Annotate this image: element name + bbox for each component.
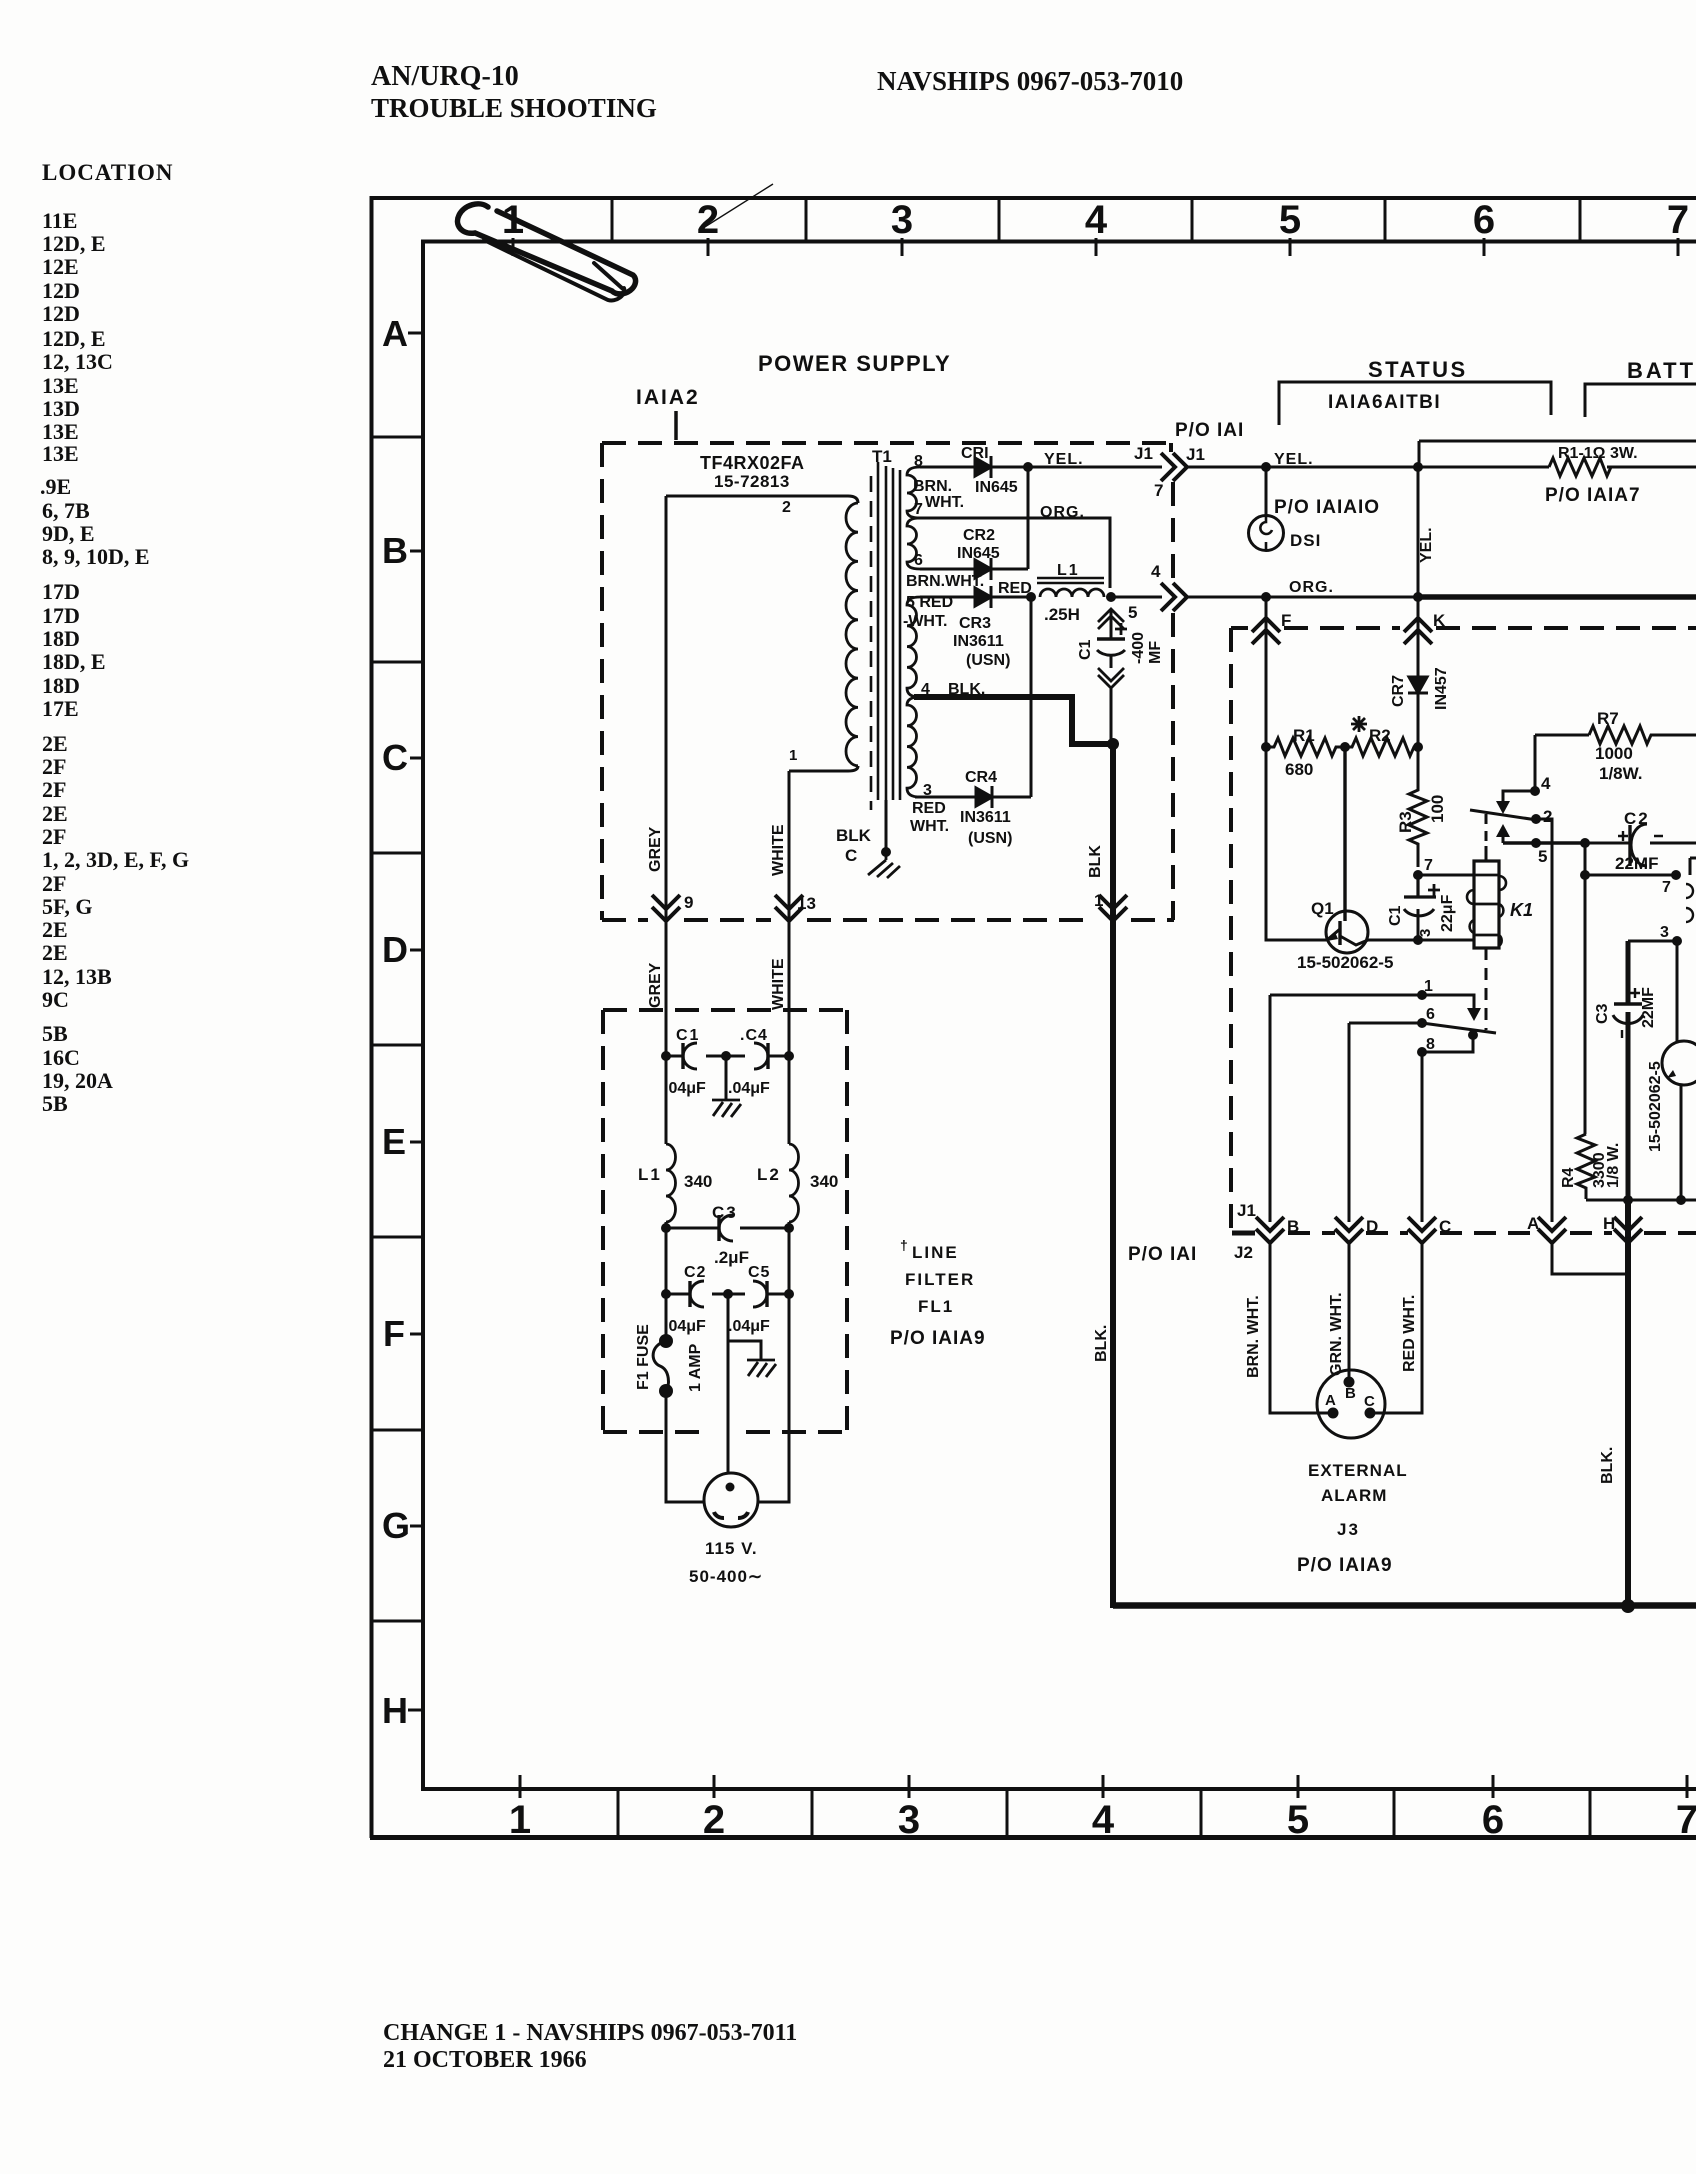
svg-text:FILTER: FILTER [905,1270,975,1289]
svg-text:C2: C2 [684,1264,706,1281]
svg-text:7: 7 [1667,198,1689,242]
J1/J2 row dashed [1232,1231,1255,1236]
svg-text:1: 1 [1424,978,1433,995]
svg-text:9C: 9C [42,987,69,1012]
wire 3 row (right) [1628,940,1677,943]
connector D arrow (down) [1335,1217,1363,1243]
svg-text:FL1: FL1 [918,1297,954,1316]
transformer T1 secondary winding 5-4 [907,597,920,697]
border inner frame [421,241,425,1789]
wire F drop [1265,597,1268,747]
node C1/C4 center [721,1051,731,1061]
svg-text:1 AMP: 1 AMP [687,1343,704,1392]
connector A arrow (down) [1538,1217,1566,1243]
capacitor C2 .04uF plates [688,1281,691,1307]
node YEL/R1-1 [1413,462,1423,472]
connector pin 1 arrow (BLK) [1099,895,1127,921]
svg-text:R4: R4 [1560,1167,1577,1188]
svg-text:5: 5 [1128,603,1137,622]
svg-text:12E: 12E [42,254,79,279]
wire bottom tie row [1586,1199,1696,1202]
svg-text:13D: 13D [42,396,80,421]
svg-text:2E: 2E [42,731,68,756]
svg-text:BLK.: BLK. [1599,1447,1616,1484]
svg-text:C1: C1 [1077,639,1094,660]
svg-text:CRI: CRI [961,445,989,462]
svg-text:12, 13B: 12, 13B [42,964,112,989]
capacitor C1 plus sign [1115,623,1127,635]
svg-text:WHT.: WHT. [925,494,964,511]
svg-text:B: B [382,530,408,571]
svg-text:5: 5 [1538,847,1547,866]
capacitor C2 22MF [1628,825,1631,866]
svg-text:P/O IAIAIO: P/O IAIAIO [1274,497,1380,518]
svg-text:ORG.: ORG. [1289,579,1334,596]
node ORG/DS1 [1261,592,1271,602]
svg-text:18D, E: 18D, E [42,649,106,674]
svg-text:(USN): (USN) [968,830,1012,847]
transformer core laminations [878,462,900,800]
svg-text:1000: 1000 [1595,744,1633,763]
node c3 right [784,1223,794,1233]
svg-text:7: 7 [1676,1798,1696,1842]
wire battery top line [1419,440,1696,443]
connector J1 pin 4 arrow [1161,583,1187,611]
svg-text:19, 20A: 19, 20A [42,1068,113,1093]
ground symbol (C2/C5) [747,1360,776,1377]
svg-text:P/O IAIA9: P/O IAIA9 [890,1328,986,1349]
capacitor C1 22uF plates [1404,875,1436,897]
svg-text:12D: 12D [42,301,80,326]
svg-text:D: D [382,929,408,970]
svg-text:-400: -400 [1130,632,1147,664]
svg-text:50-400∼: 50-400∼ [689,1567,763,1586]
svg-text:12, 13C: 12, 13C [42,349,113,374]
wire 6 row [1349,1022,1422,1025]
resistor R3 100 (vertical) [1409,747,1427,867]
svg-text:3: 3 [898,1798,920,1842]
node L1 output junction [1106,592,1116,602]
svg-text:5: 5 [1287,1798,1309,1842]
svg-text:IN457: IN457 [1433,667,1450,710]
footer change note [383,2020,797,2073]
svg-text:13: 13 [797,894,816,913]
svg-text:(USN): (USN) [966,652,1010,669]
node RED junction [1026,592,1036,602]
svg-text:IN645: IN645 [975,479,1018,496]
svg-text:4: 4 [1092,1798,1115,1842]
paperclip scan artifact [458,204,636,301]
svg-text:7: 7 [1424,857,1433,874]
wire contact 4 drop [1534,735,1537,791]
connector H arrow (down) [1614,1217,1642,1243]
node bus junction [1621,1599,1635,1613]
bottom band number ticks [520,1775,1687,1798]
svg-text:BATTE: BATTE [1627,358,1696,383]
svg-text:BLK: BLK [836,826,872,845]
node R3 bottom / pin 7 [1413,870,1423,880]
node R2/CR7 junction [1413,742,1423,752]
svg-text:CR4: CR4 [965,769,997,786]
wire ORG row [1186,596,1418,599]
transformer T1 secondary winding 8-7 [907,467,920,518]
wire YEL vertical drop [1417,467,1420,597]
wire D drop [1348,1023,1351,1222]
connector C arrow (down) [1408,1217,1436,1243]
wire RED junction down to CR4 [1030,597,1033,797]
wire B drop [1269,995,1272,1222]
header title [371,61,1183,123]
svg-text:8, 9, 10D, E: 8, 9, 10D, E [42,544,150,569]
ground symbol (C1/C4) [712,1100,741,1117]
node c2 left [661,1289,671,1299]
svg-text:K1: K1 [1510,900,1533,920]
svg-text:TF4RX02FA: TF4RX02FA [700,453,805,473]
transformer shield dashed line [870,476,873,810]
wire BLK thick from terminal 4 [914,697,1113,744]
svg-text:C: C [845,846,857,865]
resistor R1-1ohm zigzag [1549,458,1611,476]
wire terminal 7 ORG feed [911,518,1110,588]
wire GREY rail [665,496,668,1056]
svg-text:5F, G: 5F, G [42,894,93,919]
node R1/R2 junction [1340,742,1350,752]
svg-text:WHITE: WHITE [770,824,787,876]
svg-text:J1: J1 [1186,445,1205,464]
wire Q1 emitter rail [1266,747,1327,940]
svg-text:BLK.: BLK. [1093,1325,1110,1362]
wire H drop thick [1625,1200,1631,1605]
capacitor C2/C5 row wire [666,1293,789,1296]
wire Q2 vertical [1677,941,1681,1200]
node white/C4 [784,1051,794,1061]
power plug 115V [704,1473,758,1527]
diode CR1 IN645 [975,458,991,476]
svg-text:L1: L1 [1057,562,1080,579]
relay linkage dashed lower [1485,948,1488,1030]
svg-text:17D: 17D [42,603,80,628]
top band column numbers [502,198,1689,242]
wire C to alarm [1370,1243,1422,1413]
svg-text:11E: 11E [42,208,77,233]
wire C3 thick vertical [1626,941,1631,1201]
wire WHITE rail [788,771,791,1056]
svg-text:K: K [1433,611,1446,630]
external alarm connector J3 [1317,1370,1385,1438]
svg-text:BRN. WHT.: BRN. WHT. [1245,1295,1262,1378]
svg-text:1/8 W.: 1/8 W. [1605,1143,1622,1188]
svg-text:16C: 16C [42,1045,80,1070]
svg-text:WHITE: WHITE [770,958,787,1010]
svg-text:RED: RED [912,800,946,817]
svg-text:1: 1 [789,747,797,764]
svg-text:6: 6 [914,552,923,569]
svg-text:2: 2 [782,499,791,516]
svg-text:C: C [1364,1393,1375,1410]
wire pin3 row [1418,939,1474,942]
svg-text:IAIA2: IAIA2 [636,386,700,409]
fuse F1 1 AMP [659,1334,673,1348]
main ground bus (thick) [1113,1602,1696,1609]
border outer frame [370,196,374,1838]
svg-text:13E: 13E [42,373,79,398]
wire grey rail lower [666,1228,705,1502]
svg-text:WHT.: WHT. [910,818,949,835]
bottom band dividers [618,1789,1590,1838]
left band letter ticks [408,333,425,1710]
svg-text:Q1: Q1 [1311,899,1334,918]
capacitor C4 .04uF plates [766,1043,769,1069]
svg-text:J1: J1 [1134,444,1153,463]
wire BLK down through box [1110,744,1116,1608]
capacitor C3 plates [717,1215,720,1241]
capacitor C1 plates [1097,637,1125,640]
svg-text:MF: MF [1147,641,1164,664]
resistor R1 680 [1266,738,1342,756]
svg-text:R1: R1 [1293,726,1315,745]
svg-text:ORG.: ORG. [1040,504,1085,521]
node BLK junction [1107,738,1119,750]
svg-text:RED WHT.: RED WHT. [1401,1295,1418,1372]
svg-text:21 OCTOBER 1966: 21 OCTOBER 1966 [383,2047,587,2073]
lamp DS1 wire top [1265,467,1268,516]
wire B to alarm [1270,1243,1333,1413]
wire common 5 row [1503,841,1585,845]
node R1 left [1261,742,1271,752]
svg-text:P/O IAIA9: P/O IAIA9 [1297,1555,1393,1576]
svg-text:100: 100 [1428,795,1447,823]
relay K1 coil box [1474,861,1499,948]
svg-text:17D: 17D [42,579,80,604]
shield lead to ground [885,800,888,852]
node pin 3 [1413,935,1423,945]
label C3 plus [1622,988,1640,1038]
connector pin 9 arrow [652,895,680,921]
svg-text:C5: C5 [748,1264,770,1281]
svg-text:1: 1 [509,1798,531,1842]
capacitor C1 .04uF plates [681,1043,684,1069]
STATUS bracket [1279,382,1551,425]
line filter FL1 dashed box [603,1010,847,1432]
svg-text:7: 7 [1154,481,1163,500]
wire A jog to H [1552,1243,1628,1274]
svg-text:B: B [1345,1385,1356,1402]
label C2 plus/minus [1618,831,1663,841]
wire white rail mid [788,1056,791,1228]
svg-text:R3: R3 [1396,811,1415,833]
wire C2 row [1585,842,1696,845]
node ORG/YEL drop [1413,592,1423,602]
svg-text:.04μF: .04μF [728,1318,770,1335]
svg-text:12D: 12D [42,278,80,303]
svg-text:EXTERNAL: EXTERNAL [1308,1461,1408,1480]
left band row letters [382,313,410,1731]
svg-text:.9E: .9E [40,474,71,499]
svg-text:POWER SUPPLY: POWER SUPPLY [758,351,951,376]
svg-text:R2: R2 [1369,726,1391,745]
node contact 4 [1530,786,1540,796]
diode CR7 IN457 [1409,677,1427,693]
wire YEL from J1 to right [1186,466,1696,469]
connector K arrow (up) [1404,618,1432,644]
svg-text:6, 7B: 6, 7B [42,498,90,523]
svg-text:F: F [1281,611,1291,630]
top band dividers [612,198,1580,241]
node c2/c5 center [723,1289,733,1299]
svg-text:CHANGE 1 - NAVSHIPS 0967-053-7: CHANGE 1 - NAVSHIPS 0967-053-7011 [383,2020,797,2046]
svg-text:YEL.: YEL. [1274,451,1314,468]
capacitor C3 row wire [666,1227,789,1230]
svg-text:R7: R7 [1597,709,1619,728]
svg-text:J3: J3 [1337,1520,1360,1539]
svg-text:IN3611: IN3611 [960,809,1011,826]
BATTERY bracket [1585,384,1696,417]
node c3 left [661,1223,671,1233]
wire center to ground [725,1056,728,1100]
svg-text:340: 340 [810,1172,838,1191]
resistor R4 3300 1/8W (vertical) [1577,1134,1595,1199]
transformer T1 secondary winding 7-6 [907,518,920,569]
svg-text:DSI: DSI [1290,531,1321,550]
svg-text:D: D [1366,1217,1378,1236]
connector F arrow (up) [1252,618,1280,644]
tick from 1A1A2 to box [674,411,678,440]
svg-text:J1: J1 [1237,1201,1256,1220]
diode CR4 IN3611 [976,788,992,806]
svg-text:L1: L1 [638,1165,662,1184]
svg-text:†: † [900,1237,908,1253]
svg-text:BLK: BLK [1087,845,1104,878]
svg-text:C1: C1 [1387,905,1404,926]
top band number ticks [513,238,1678,256]
wire terminal 6 to CR2 [920,568,975,571]
svg-text:6: 6 [1482,1798,1504,1842]
svg-text:2E: 2E [42,801,68,826]
labels A B C (alarm pins) [1325,1385,1375,1410]
ground symbol (transformer shield) [868,852,900,878]
node c5 right [784,1289,794,1299]
svg-text:G: G [382,1505,410,1546]
svg-text:115 V.: 115 V. [705,1539,758,1558]
diode CR3 IN3611 [975,588,991,606]
svg-text:IN3611: IN3611 [953,633,1004,650]
svg-text:7: 7 [914,501,923,518]
svg-text:340: 340 [684,1172,712,1191]
svg-text:H: H [1603,1214,1615,1233]
wire ground branch [728,1341,761,1360]
node contact 2 [1531,814,1541,824]
lower contact set: wire 1 row [1270,995,1474,1008]
svg-text:5B: 5B [42,1021,68,1046]
svg-text:2F: 2F [42,824,66,849]
capacitor C1 22uF plus [1428,884,1440,896]
node contact 5 [1531,838,1541,848]
relay linkage dashed upper [1485,846,1488,861]
wire contact 2 to A drop [1536,819,1552,1222]
relay K2 fragment at edge [1690,858,1696,875]
wire terminal 5 to CR3 [920,596,975,599]
svg-text:IAIA6AITBI: IAIA6AITBI [1328,392,1441,413]
svg-text:15-502062-5: 15-502062-5 [1297,953,1393,972]
svg-text:2F: 2F [42,871,66,896]
inductor L1 core bars [1037,578,1104,583]
node grey/C1 [661,1051,671,1061]
svg-text:18D: 18D [42,673,80,698]
svg-text:AN/URQ-10: AN/URQ-10 [371,61,519,92]
svg-text:L2: L2 [757,1165,781,1184]
svg-text:9: 9 [684,893,693,912]
node C2 junction [1580,838,1590,848]
transistor Q1 [1326,911,1368,953]
svg-text:F: F [383,1313,405,1354]
svg-text:GREY: GREY [647,962,664,1008]
svg-text:C1: C1 [676,1027,700,1044]
svg-text:15-502062-5: 15-502062-5 [1647,1061,1664,1152]
svg-text:R1-1Ω 3W.: R1-1Ω 3W. [1558,445,1638,462]
svg-text:18D: 18D [42,626,80,651]
inductor L1 .25H [1040,589,1104,597]
svg-text:6: 6 [1473,198,1495,242]
wire CR1 to J1 (YEL) [991,466,1162,469]
svg-text:3: 3 [891,198,913,242]
svg-text:.25H: .25H [1044,605,1080,624]
power supply module dashed box 1A1A2 [602,443,1174,920]
svg-text:4: 4 [1541,774,1551,793]
contact 5 NO arrow [1502,837,1505,843]
wire grey rail mid [665,1056,668,1228]
location column [40,160,189,1116]
wire terminal 8 to CR1 [920,466,975,469]
svg-text:GREY: GREY [647,826,664,872]
wire pin7 to K1 [1418,874,1474,877]
svg-text:TROUBLE SHOOTING: TROUBLE SHOOTING [371,93,657,123]
svg-text:2F: 2F [42,777,66,802]
inductor L1 340 (filter) [666,1144,676,1222]
left band dividers [371,437,423,1621]
svg-text:CR7: CR7 [1390,675,1407,707]
status box top dashed [1231,628,1696,1233]
relay armature arm (upper) [1470,810,1537,820]
wire R4/C3 feed vertical [1584,875,1587,1134]
svg-text:A: A [1325,1392,1336,1409]
svg-text:6: 6 [1426,1006,1435,1023]
svg-text:1, 2, 3D, E, F, G: 1, 2, 3D, E, F, G [42,847,189,872]
svg-text:C3: C3 [1594,1003,1611,1024]
svg-text:2E: 2E [42,940,68,965]
contact 4 NC arm with arrow [1503,791,1535,801]
svg-text:YEL.: YEL. [1044,451,1084,468]
svg-text:17E: 17E [42,696,79,721]
wire R7 feed [1535,734,1589,737]
connector B arrow (down) [1256,1217,1284,1243]
svg-text:C3: C3 [712,1203,738,1222]
svg-text:4: 4 [1085,198,1108,242]
svg-text:13E: 13E [42,441,79,466]
svg-text:E: E [382,1121,406,1162]
resistor R2 [1345,738,1421,756]
diode CR2 IN645 [975,560,991,578]
inductor L2 340 [789,1144,799,1222]
svg-text:GRN. WHT.: GRN. WHT. [1328,1292,1345,1376]
svg-text:P/O IAIA7: P/O IAIA7 [1545,485,1641,506]
svg-text:2: 2 [703,1798,725,1842]
svg-text:22MF: 22MF [1615,854,1658,873]
relay armature arm (lower) [1422,1023,1496,1033]
transformer T1 secondary winding 4-3 [907,697,920,797]
svg-text:NAVSHIPS 0967-053-7010: NAVSHIPS 0967-053-7010 [877,66,1183,96]
svg-text:LOCATION: LOCATION [42,160,174,185]
svg-text:12D, E: 12D, E [42,231,106,256]
